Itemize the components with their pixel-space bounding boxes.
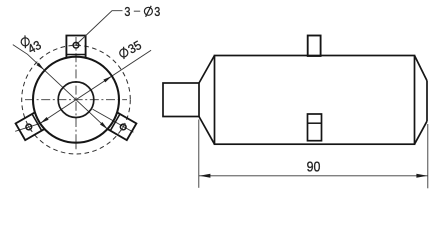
svg-text:3: 3: [154, 5, 160, 19]
bolt circle Ø43 (dashed): [22, 45, 131, 154]
radial centerline to lower-right lug: [93, 109, 134, 132]
label 3-Ø3: [124, 5, 160, 19]
top mounting lug: [66, 36, 85, 58]
tail cone top: [415, 56, 428, 81]
svg-text:90: 90: [307, 158, 321, 175]
body rectangle: [215, 56, 415, 145]
arrowhead Ø35 upper-right: [103, 76, 112, 82]
tail end face: [426, 81, 428, 122]
taper bottom line: [199, 117, 215, 145]
top tab (lug side view): [308, 36, 321, 57]
lower lug side view: [308, 114, 322, 141]
lower lug divider line: [308, 122, 322, 124]
label Ø43 (rotated): [25, 38, 43, 57]
leader line 3-Ø3: [76, 11, 122, 45]
centerline horizontal: [25, 99, 127, 101]
taper top line: [199, 56, 215, 84]
arrowhead Ø43 upper-left (outside, pointing in): [37, 63, 45, 70]
svg-text:3: 3: [124, 5, 130, 19]
dimension arrow left: [199, 174, 210, 178]
lower-left mounting lug: [107, 112, 136, 140]
extension line right: [427, 124, 429, 188]
radial centerline to lower-left lug: [15, 123, 40, 131]
label Ø35 (rotated): [126, 38, 144, 57]
main body circle Ø35: [33, 57, 119, 143]
arrowhead Ø35 lower-left: [40, 117, 49, 123]
extension line left: [198, 120, 200, 188]
inlet stub: [163, 83, 199, 117]
lower-right mounting lug: [16, 112, 45, 140]
tail cone bottom: [415, 121, 428, 144]
inner bore circle: [58, 82, 94, 118]
centerline stub below circle: [75, 144, 77, 150]
arrowhead Ø43 lower-right: [100, 122, 108, 129]
dimension line Ø35 diagonal: [40, 50, 151, 123]
leader line Ø43 (bent): [13, 45, 108, 130]
dimension arrow right: [416, 174, 427, 178]
dimension line 90: [199, 175, 428, 177]
centerline vertical: [75, 37, 77, 149]
